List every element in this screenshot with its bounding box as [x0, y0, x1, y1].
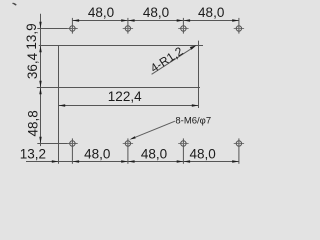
- svg-text:48,0: 48,0: [198, 5, 224, 20]
- bottom hole 1 crosshair: [67, 143, 77, 145]
- svg-text:48,8: 48,8: [26, 110, 41, 136]
- svg-text:48,0: 48,0: [88, 5, 114, 20]
- arrow top dim at hole1, pointing left: [72, 19, 79, 21]
- plate outline: right edge (extends up, and down as extension line for 122,4): [198, 41, 200, 108]
- arrow bottom dim at hole2, pointing left: [128, 160, 135, 162]
- left vertical dimension chain line x=40.1: [40, 14, 42, 146]
- extension line below bottom hole 3: [182, 138, 184, 163]
- arrow top dim at hole4, pointing right: [232, 19, 239, 21]
- extension line above top hole 3: [182, 18, 184, 34]
- svg-text:48,0: 48,0: [141, 146, 167, 161]
- top hole 1: [70, 26, 75, 31]
- svg-text:36,4: 36,4: [25, 52, 40, 79]
- svg-text:48,0: 48,0: [143, 5, 169, 20]
- arrow bottom dim at hole3, pointing left: [183, 160, 190, 162]
- leader arrow for 8-M6/φ7 pointing at bottom hole 2: [129, 136, 135, 139]
- extension line above top hole 4: [238, 18, 240, 34]
- extension line above top hole 2: [127, 18, 129, 34]
- extension line below bottom hole 4: [238, 138, 240, 163]
- arrow top dim at hole3, pointing left: [183, 19, 190, 21]
- bottom hole 3: [181, 141, 186, 146]
- tiny screen artifact mark top-left: [12, 3, 13, 4]
- plate outline: bottom edge with left extension: [37, 87, 200, 89]
- svg-text:48,0: 48,0: [84, 146, 110, 161]
- arrow bottom dim at hole2, pointing right: [121, 160, 128, 162]
- arrow 13,9/36,4 at plate top edge, pointing up: [39, 46, 41, 53]
- top hole 1 crosshair: [67, 28, 77, 30]
- svg-text:8-M6/φ7: 8-M6/φ7: [175, 115, 211, 126]
- top hole 4 crosshair: [234, 28, 244, 30]
- extension line below bottom hole 2: [127, 138, 129, 163]
- horizontal extension line at top hole centerline (13,9 upper reference): [37, 28, 77, 30]
- arrow 48,8 upper, pointing up at plate bottom edge: [39, 88, 41, 95]
- bottom hole 2: [125, 141, 130, 146]
- horizontal extension line at bottom hole centerline (48,8 lower reference): [37, 143, 77, 145]
- svg-text:13,9: 13,9: [24, 23, 39, 49]
- arrow bottom dim 13,2 outside-left, pointing right: [52, 160, 59, 162]
- bottom hole 1: [70, 141, 75, 146]
- arrow bottom dim at hole1, pointing left: [72, 160, 79, 162]
- extension line below bottom hole 1: [71, 138, 73, 163]
- arrow bottom dim at hole4, pointing right: [232, 160, 239, 162]
- arrow 122,4 left, pointing left: [59, 104, 66, 106]
- top hole 2 crosshair: [123, 28, 133, 30]
- plate outline: top edge with left extension: [39, 45, 203, 47]
- arrow top dim at hole2, pointing left: [128, 19, 135, 21]
- dimension line 122,4: [59, 105, 199, 107]
- top hole 3 crosshair: [178, 28, 188, 30]
- extension line above top hole 1: [71, 18, 73, 34]
- arrow 36,4 lower, pointing down at plate bottom edge: [39, 81, 41, 88]
- top hole 2: [125, 26, 130, 31]
- bottom hole 3 crosshair: [178, 143, 188, 145]
- arrow 122,4 right, pointing right: [192, 104, 199, 106]
- bottom dimension line y=161.3: [26, 161, 239, 163]
- svg-text:48,0: 48,0: [189, 146, 215, 161]
- leader line for 8-M6/φ7: [133, 121, 175, 138]
- top dimension line y=20.3: [72, 20, 239, 22]
- top hole 4: [236, 26, 241, 31]
- bottom hole 4: [236, 141, 241, 146]
- bottom hole 4 crosshair: [234, 143, 244, 145]
- arrow bottom dim at hole3, pointing right: [177, 160, 184, 162]
- svg-text:13,2: 13,2: [20, 146, 46, 161]
- bottom hole 2 crosshair: [123, 143, 133, 145]
- leader line for 4-R1,2: [152, 49, 192, 75]
- leader arrow for 4-R1,2 pointing at top-right corner: [190, 45, 197, 50]
- arrow top dim at hole2, pointing right: [121, 19, 128, 21]
- arrow top dim at hole3, pointing right: [177, 19, 184, 21]
- svg-text:122,4: 122,4: [108, 89, 142, 104]
- arrow 48,8 lower, pointing down at bottom hole centerline: [39, 137, 41, 144]
- top hole 3: [181, 26, 186, 31]
- arrow 13,9 upper, pointing down at hole centerline: [39, 22, 41, 29]
- plate outline: left edge (extends down as extension line for 122,4 / 13,2): [58, 45, 60, 164]
